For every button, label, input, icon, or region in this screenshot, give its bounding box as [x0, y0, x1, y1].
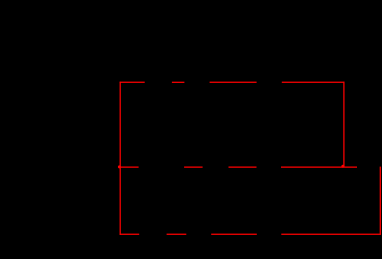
wire: left vertical bus (net N1-N3 left side) [119, 82, 121, 235]
wire: bottom rail segment d [281, 233, 381, 235]
wire: bottom rail segment b [167, 233, 187, 235]
wire: middle rail segment d (through node at x=344) [281, 166, 357, 168]
wire: top-right vertical drop [343, 82, 345, 167]
wire: bottom-right vertical riser [379, 167, 381, 235]
wire: middle rail segment a [120, 166, 139, 168]
node A junction dot (left vertical / middle rail) [118, 165, 121, 168]
wire: middle rail segment c [229, 166, 257, 168]
wire: top rail segment d [282, 81, 345, 83]
wire: bottom rail segment a [120, 233, 140, 235]
wire: bottom rail segment c [211, 233, 257, 235]
wire: top rail segment b (between R1 and R2) [172, 81, 185, 83]
wire: middle rail segment b [184, 166, 203, 168]
wire: top rail segment c [210, 81, 257, 83]
node B junction dot (top-right drop / middle rail) [341, 165, 344, 168]
wire: top rail segment a [120, 81, 145, 83]
